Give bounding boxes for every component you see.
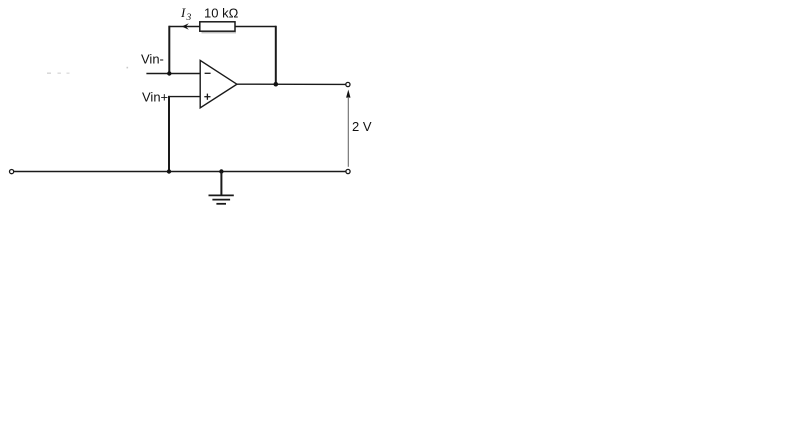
wire bottom rail: [14, 171, 346, 173]
wire feedback left vertical: [168, 26, 170, 74]
svg-text:Vin-: Vin-: [141, 52, 164, 67]
wire noninverting input: [168, 96, 200, 98]
terminal output open circle: [346, 82, 350, 86]
terminal bottom right open circle: [346, 169, 350, 173]
node junction inverting input: [167, 71, 171, 75]
op-amp U1 triangle: [200, 60, 237, 108]
svg-text:I: I: [180, 5, 186, 20]
node junction bottom left vertical: [167, 169, 171, 173]
wire output: [237, 83, 346, 85]
wire top feedback left segment: [169, 26, 200, 28]
wire inverting input: [146, 73, 200, 75]
ground lead: [220, 172, 222, 196]
wire feedback right vertical: [275, 26, 277, 84]
op-amp plus pin mark: [204, 96, 210, 98]
node junction bottom ground: [219, 169, 223, 173]
svg-text:10 kΩ: 10 kΩ: [204, 6, 239, 21]
ground symbol: [209, 194, 234, 196]
current arrow I3 head: [182, 23, 189, 30]
svg-text:3: 3: [186, 13, 192, 23]
wire noninverting vertical to ground rail: [168, 96, 170, 172]
resistor shadow: [202, 32, 237, 34]
svg-text:2 V: 2 V: [352, 119, 372, 134]
resistor R 10k box: [200, 22, 235, 31]
voltage arrow head 2V: [346, 90, 350, 98]
terminal left open circle: [10, 170, 14, 174]
wire top feedback right segment: [235, 26, 276, 28]
voltage arrow line 2V: [347, 97, 349, 167]
stray faint marks: [47, 73, 51, 74]
op-amp minus pin mark: [205, 72, 211, 74]
node junction output feedback: [274, 82, 279, 87]
svg-text:Vin+: Vin+: [142, 90, 168, 105]
